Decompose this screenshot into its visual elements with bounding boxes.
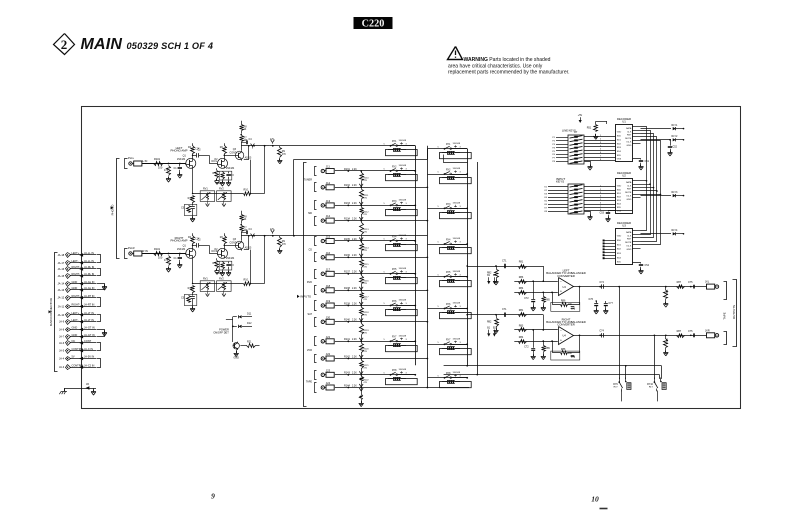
bus B1 (467, 149, 469, 366)
op-amp R minus line (514, 341, 558, 343)
wire CN2 to U2 pin 8 (584, 209, 615, 211)
phono L wire coupling (209, 155, 218, 163)
wire CN1 to U1 pin 7 (584, 155, 615, 157)
svg-text:R134: R134 (344, 217, 350, 220)
wire CN1 to U1 pin 1 (584, 135, 615, 137)
svg-text:1N4148: 1N4148 (453, 203, 461, 205)
svg-text:SAT: SAT (307, 313, 312, 316)
op-amp L label (546, 269, 586, 278)
svg-text:replacement parts recommended: replacement parts recommended by the man… (448, 69, 569, 75)
wire relay RY3R input (427, 208, 467, 210)
svg-text:JA-5V IN: JA-5V IN (84, 355, 94, 359)
relay RY6R (438, 303, 472, 319)
svg-text:R84: R84 (519, 336, 524, 339)
phono L output line (241, 145, 269, 160)
chain resistor R221 (359, 359, 369, 376)
wire relay B row 7 to bus (452, 343, 469, 345)
U1 right pin CLK (632, 130, 640, 132)
op-amp R resistor R+ (519, 325, 527, 332)
phono pair bracket L (125, 159, 128, 169)
bypass ecap 1 (589, 298, 599, 314)
ground CN1 (585, 162, 593, 171)
svg-text:RY4: RY4 (446, 239, 451, 241)
svg-text:2SK184: 2SK184 (177, 249, 186, 251)
svg-text:2SK184: 2SK184 (226, 168, 235, 170)
svg-text:R86: R86 (561, 348, 566, 351)
svg-text:1N4148: 1N4148 (453, 372, 461, 374)
op-amp L feedback wires (551, 286, 580, 311)
chain resistor R219 (359, 322, 369, 342)
svg-text:JA-GT IN: JA-GT IN (84, 326, 95, 330)
relay RY8R (438, 372, 472, 388)
bracket outputs (733, 280, 737, 347)
svg-text:RST: RST (627, 135, 632, 137)
wire jack row 14 to bus (361, 387, 469, 389)
svg-text:1N4148: 1N4148 (399, 335, 407, 337)
U1 right pin I-CLK (632, 140, 640, 142)
svg-text:CLK: CLK (627, 235, 632, 237)
phono R resistor R1 (154, 247, 163, 260)
wire CN1 pin 4 (552, 147, 568, 149)
bus decoder 3 (641, 134, 655, 238)
input jack row 14 (TAPE R) (321, 381, 361, 390)
phono L wire input (142, 163, 186, 165)
chain resistor R220 (359, 341, 369, 359)
connector pin JA-11 (58, 303, 96, 309)
svg-text:J17: J17 (326, 267, 331, 271)
svg-text:C76: C76 (589, 298, 594, 301)
wire relay A row 6 to bus (398, 305, 417, 307)
wire relay B row 8 to bus (452, 377, 469, 379)
svg-text:GND: GND (72, 326, 78, 330)
wire relay A row 2 to bus (398, 170, 417, 172)
wire CN2 to U2 pin 2 (584, 189, 615, 191)
svg-text:RY3: RY3 (392, 201, 397, 203)
wire phono R riser (293, 159, 295, 236)
svg-text:R141: R141 (344, 338, 350, 341)
phono L label (171, 146, 188, 153)
svg-text:U7: U7 (574, 130, 578, 134)
op-amp R feedback resistor (561, 348, 573, 355)
phono R resistor R4 drain (220, 233, 227, 248)
svg-text:RLY3: RLY3 (672, 191, 679, 194)
svg-text:MUTE: MUTE (625, 242, 632, 244)
op-amp L riser (542, 266, 544, 282)
svg-text:R133: R133 (344, 202, 350, 205)
svg-text:GND: GND (627, 145, 632, 147)
ground arrow JA gnd2 (102, 331, 107, 337)
op-amp R resistor Rg (487, 315, 499, 334)
svg-text:GND: GND (72, 286, 78, 290)
svg-text:R11: R11 (188, 197, 193, 200)
svg-text:JA-GL IN: JA-GL IN (84, 280, 95, 284)
wire CN2 pin 8 (544, 211, 568, 213)
wire CN2 pin 7 (544, 208, 568, 210)
label OUTPUTS (732, 305, 736, 319)
resistor R21 (240, 340, 259, 347)
phono R wire to selector (269, 235, 279, 237)
svg-text:RY3: RY3 (446, 204, 451, 206)
svg-text:DATA: DATA (626, 231, 632, 234)
phono L resistor R6 (219, 172, 225, 187)
U1 right pin GND (632, 143, 640, 145)
svg-text:J14: J14 (326, 214, 331, 218)
wire relay B row 6 to bus (452, 308, 469, 310)
chain resistor R213 (359, 221, 369, 242)
svg-text:C71: C71 (502, 308, 507, 311)
phono R capacitor C3 (226, 262, 234, 276)
phono R feedback to output (250, 235, 265, 284)
svg-text:JA-LT IN: JA-LT IN (84, 318, 94, 322)
svg-text:R82: R82 (487, 320, 492, 323)
svg-text:TAPE: TAPE (306, 380, 313, 383)
svg-text:1N4148: 1N4148 (399, 369, 407, 371)
svg-text:100K: 100K (667, 338, 669, 344)
svg-text:2.2K: 2.2K (352, 288, 357, 290)
svg-text:D12: D12 (247, 322, 252, 325)
connector pin JA-18 (58, 251, 96, 257)
svg-text:RV1: RV1 (203, 188, 208, 191)
svg-text:WARNING Parts located in the s: WARNING Parts located in the shaded (464, 57, 551, 63)
connector CN1 (LINE KEYS) (562, 128, 584, 164)
wire jack row 3 to relay A (361, 205, 415, 207)
wire below RY9 (621, 391, 623, 402)
svg-text:R138: R138 (344, 287, 350, 290)
svg-text:R136: R136 (344, 254, 350, 257)
wire relay A row 1 to bus (398, 145, 416, 147)
input jack row 11 (VCR L) (321, 335, 361, 344)
op-amp L output wire (574, 286, 707, 288)
input jack row 10 (SAT R) (321, 315, 361, 324)
svg-text:1N4148: 1N4148 (453, 143, 461, 145)
wire CN1 to U1 pin 2 (584, 139, 615, 141)
op-amp L resistor Rm gnd (541, 292, 550, 311)
svg-text:RY1: RY1 (392, 141, 397, 143)
wire loop JA-8-JA-7 (97, 330, 105, 337)
phono R wire input (142, 253, 186, 255)
phono R capacitor C1 to ground (174, 254, 183, 269)
corner mark (600, 508, 608, 510)
wire relay RY7R input (427, 344, 467, 346)
svg-text:VSS: VSS (617, 211, 622, 213)
svg-text:R84: R84 (519, 287, 524, 290)
chain resistor R216 (359, 274, 369, 291)
wire relay RY5R input (427, 276, 467, 278)
relay RY2L (384, 165, 418, 181)
svg-text:C77: C77 (608, 302, 613, 305)
power arrow +5V (578, 114, 583, 123)
wire det junction (226, 317, 234, 342)
wire relay RY1R input (427, 148, 467, 150)
svg-text:R85: R85 (545, 298, 550, 301)
svg-text:RY7: RY7 (446, 340, 451, 342)
svg-text:1N4148: 1N4148 (453, 271, 461, 273)
relay RY9 (tape L) (613, 378, 631, 392)
input jack row 8 (DVD R) (321, 284, 361, 293)
svg-text:PH-L: PH-L (128, 156, 135, 160)
wire relay B row 5 to bus (452, 276, 469, 278)
phono R wire coupling (209, 245, 218, 253)
U3 left pin 3 (603, 245, 616, 247)
wire loop JA-4-JA-3 (97, 359, 101, 368)
svg-text:R10: R10 (244, 279, 249, 282)
phono R node n1 (168, 253, 170, 255)
svg-text:RLY4: RLY4 (672, 229, 679, 232)
phono L feedback resistor R10 (244, 189, 251, 196)
svg-text:RLY: RLY (649, 387, 654, 389)
wire relay RY4R input (427, 244, 467, 246)
phono L wire to selector (269, 145, 279, 147)
svg-text:R132: R132 (344, 184, 350, 187)
chain resistor R222 (359, 375, 369, 389)
svg-text:12V: 12V (270, 229, 275, 231)
title MAIN (81, 36, 123, 53)
wire jack row 10 to bus (361, 321, 428, 323)
wire CN1 to U1 pin 6 (584, 152, 615, 154)
svg-text:R83: R83 (519, 276, 524, 279)
phono L resistor R1 (154, 157, 163, 170)
phono R label (171, 236, 188, 243)
phono R feedback resistor R10 (244, 279, 251, 286)
svg-text:LEFT+: LEFT+ (72, 311, 80, 315)
phono L jfet Q1 (177, 154, 196, 168)
svg-text:2.2K: 2.2K (352, 356, 357, 358)
op-amp L minus line (514, 292, 558, 294)
phono L node n1 (168, 163, 170, 165)
svg-text:JA-6: JA-6 (59, 341, 65, 345)
svg-text:C72: C72 (524, 346, 529, 349)
svg-text:R139: R139 (344, 302, 350, 305)
phono R output line (241, 235, 269, 250)
wire CN1 pin 2 (552, 141, 568, 143)
svg-text:J20: J20 (326, 315, 331, 319)
input jack row 6 (CD R) (321, 251, 361, 260)
wire jack row 5 to relay A (361, 240, 415, 242)
wire CN1 to U1 pin 5 (584, 149, 615, 151)
U3 left pin 6 (603, 254, 616, 256)
phono R resistor R7 collector (240, 226, 249, 241)
svg-text:MUTE: MUTE (625, 138, 632, 140)
phono R capacitor C2 coupling (192, 238, 209, 247)
phono L node out (253, 139, 274, 147)
svg-text:U1: U1 (622, 120, 626, 124)
connector CN2 (INPUT KEYS) (556, 177, 584, 214)
relay RY1R (438, 143, 472, 159)
svg-text:2.2K: 2.2K (352, 339, 357, 341)
diode D1 RLY1 (641, 124, 685, 130)
wire jack row 12 to bus (361, 358, 428, 360)
inputs bracket (297, 163, 311, 407)
svg-text:GND: GND (72, 333, 78, 337)
phono L jfet Q2 (214, 158, 235, 170)
phono L feedback line (192, 168, 244, 194)
op-amp R label (546, 317, 586, 326)
U3 left pin 4 (603, 248, 616, 250)
connector pin JA-5 (59, 347, 96, 354)
svg-text:R101: R101 (154, 247, 161, 251)
svg-text:5V: 5V (72, 355, 75, 359)
page number 10 (591, 495, 599, 504)
phono L wire Q2 drain to base (224, 152, 237, 157)
U3 right pin GND (632, 248, 640, 250)
U2 right pin DATA (632, 180, 640, 182)
svg-text:R83: R83 (519, 325, 524, 328)
warning text (448, 57, 569, 75)
power arrow pair B (493, 275, 497, 284)
svg-text:R137: R137 (344, 271, 350, 274)
svg-text:R142: R142 (344, 355, 350, 358)
group bracket DVD (307, 270, 317, 295)
phono R feedback line (192, 258, 244, 284)
chain resistor R218 (359, 306, 369, 323)
svg-text:RY7: RY7 (392, 337, 397, 339)
wire CN2 pin 4 (544, 197, 568, 199)
phono L ground feedback (190, 213, 195, 222)
svg-text:GND: GND (627, 249, 632, 251)
svg-text:RY4: RY4 (392, 236, 397, 238)
svg-text:J24: J24 (326, 381, 331, 385)
svg-text:LEFT-: LEFT- (72, 259, 79, 263)
vertical loop2 to relay (659, 375, 661, 379)
svg-text:R85: R85 (545, 347, 550, 350)
svg-text:47K: 47K (164, 259, 169, 262)
phono L trimmer RV2 (217, 188, 232, 207)
svg-text:ICLK: ICLK (627, 246, 632, 248)
bus B2 (477, 162, 479, 375)
svg-text:CONT: CONT (84, 339, 92, 343)
svg-text:JA-RL IN: JA-RL IN (84, 265, 94, 269)
svg-text:MD: MD (308, 212, 312, 215)
wire CN2 to U2 pin 6 (584, 202, 615, 204)
phono R node out (253, 229, 274, 237)
phono R resistor R3 drain (188, 233, 200, 248)
IC U3 decoder (616, 221, 633, 265)
phono R wire Q2 drain to base (224, 242, 237, 247)
chain bottom ground (359, 388, 364, 407)
wire CN1 to U1 pin 4 (584, 145, 615, 147)
wire jack row 11 to relay A (361, 341, 415, 343)
op-amp L out node (688, 281, 695, 288)
svg-text:JA-LL IN: JA-LL IN (84, 251, 94, 255)
connector pin JA-10 (58, 311, 96, 318)
phono R capacitor C4 bypass (241, 228, 254, 239)
connector pin JA-12 (58, 294, 96, 301)
svg-text:2.2K: 2.2K (352, 303, 357, 305)
op-amp R resistor Rin (519, 309, 527, 316)
wire CN2 to U2 pin 4 (584, 196, 615, 198)
phono bracket (111, 159, 120, 259)
svg-text:MAIN: MAIN (81, 36, 123, 53)
phono R resistor R6 (219, 262, 225, 277)
svg-text:U2: U2 (622, 174, 626, 178)
svg-text:1N4148: 1N4148 (453, 168, 461, 170)
phono L node n2 (179, 163, 181, 165)
connector pin JA-6 (59, 339, 96, 345)
phono L bias resistor R5 (213, 168, 220, 184)
op-amp R out cap (599, 330, 604, 338)
U2 right pin I-CLK (632, 194, 640, 196)
phono L capacitor C1 to ground (174, 164, 183, 179)
phono R ground feedback (190, 303, 195, 312)
wire relay B1 underloop right (444, 155, 468, 163)
svg-text:RY2: RY2 (446, 169, 451, 171)
svg-text:J22: J22 (326, 352, 331, 356)
power arrow pair D (493, 327, 497, 336)
resistor R51 pullup (587, 121, 607, 139)
output jack L (705, 281, 719, 290)
connector pin JA-14 (58, 280, 96, 287)
svg-text:RLY2: RLY2 (672, 135, 679, 138)
svg-text:VSS: VSS (617, 159, 622, 161)
svg-text:R140: R140 (344, 319, 350, 322)
bus decoder 1 (641, 127, 648, 231)
U2 right pin RESET (632, 187, 640, 189)
svg-text:RY6: RY6 (446, 304, 451, 306)
op-amp R out resistor gnd (663, 334, 668, 355)
svg-text:OUTPUTS: OUTPUTS (732, 305, 736, 319)
input jack row 7 (DVD L) (321, 267, 361, 276)
op-amp L out resistor gnd (663, 286, 668, 307)
diode D2 RLY2 (641, 135, 685, 141)
diode D11 (233, 313, 252, 319)
chain resistor R217 (359, 290, 369, 306)
svg-text:J12: J12 (326, 181, 331, 185)
wire loop JA-18-JA-17 (97, 255, 101, 263)
ground arrow JA gnd1 (102, 285, 107, 291)
svg-text:TUNER: TUNER (304, 178, 313, 181)
phono L resistor R3 drain (188, 143, 200, 158)
wire CN1 pin 5 (552, 151, 568, 153)
wire jack row 2 to bus (361, 186, 428, 188)
input jack row 1 (TUNER L) (321, 165, 361, 174)
U3 left pin 2 (603, 242, 616, 244)
U3 right pin I-CLK (632, 244, 640, 246)
U3 right pin CLK (632, 234, 640, 236)
U2 right pin GND (632, 197, 640, 199)
svg-text:D11: D11 (247, 313, 252, 316)
relay RY7R (438, 338, 472, 354)
svg-text:1N4148: 1N4148 (453, 338, 461, 340)
svg-text:2SK184: 2SK184 (177, 159, 186, 161)
svg-text:RLY1: RLY1 (672, 124, 679, 127)
phono pair bracket R (125, 249, 128, 259)
capacitor C53 U2 (600, 211, 633, 223)
svg-text:2.2K: 2.2K (352, 239, 357, 241)
capacitor C51 U1 (633, 159, 650, 171)
input jack row 9 (SAT L) (321, 299, 361, 308)
wire loop JA-14-JA-13 (97, 284, 105, 290)
connector pin JA-9 (59, 318, 96, 325)
op-amp L resistor R- (519, 287, 527, 294)
wire relay A row 5 to bus (398, 273, 417, 275)
svg-text:NC: NC (72, 339, 76, 343)
svg-text:JA-14: JA-14 (58, 282, 65, 286)
relay RY6L (384, 300, 418, 316)
phono R resistor R8 collector top (240, 211, 248, 224)
phono L resistor R4 drain (220, 143, 227, 158)
op-amp R resistor R- (519, 336, 527, 344)
svg-text:C75: C75 (688, 330, 693, 333)
op-amp R out node (688, 330, 695, 337)
U2 right pin CLK (632, 184, 640, 186)
svg-text:R144: R144 (344, 384, 350, 387)
wire CN2 to U2 pin 5 (584, 199, 615, 201)
phono L resistor R7 collector (240, 136, 249, 151)
svg-text:JA-GL IN: JA-GL IN (84, 286, 95, 290)
svg-text:100: 100 (158, 166, 163, 170)
svg-text:CD: CD (309, 248, 313, 251)
op-amp L out resistor series (677, 281, 685, 288)
